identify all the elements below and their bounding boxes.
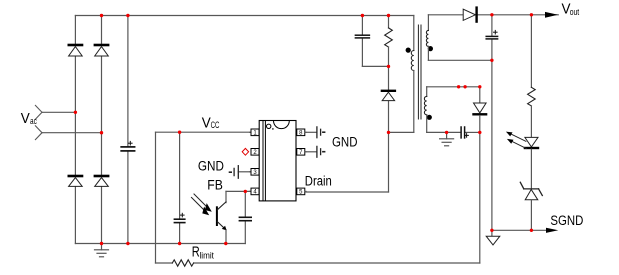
- diode D4 bridge bottom-right: [95, 176, 109, 186]
- capacitor Vcc bypass electrolytic: [174, 132, 184, 243]
- wire Vac top: [42, 111, 75, 113]
- wire SGND rail: [492, 229, 546, 231]
- IC pin 3: [250, 169, 259, 176]
- capacitor bypass pin7: [306, 146, 325, 157]
- diode D1 bridge top-left: [69, 45, 83, 56]
- svg-text:SGND: SGND: [550, 213, 583, 228]
- IC pin 2: [251, 149, 259, 156]
- capacitor snubber: [355, 16, 388, 67]
- resistor feedback divider: [528, 15, 536, 138]
- terminal Vac bottom: [35, 126, 42, 140]
- IC pin 7: [297, 149, 306, 156]
- capacitor bypass pin8: [306, 127, 325, 138]
- svg-text:GND: GND: [198, 158, 224, 173]
- IC pin 8: [297, 129, 306, 136]
- wire aux bottom: [427, 131, 480, 133]
- wire Vcc net: [156, 132, 480, 263]
- capacitor aux Vcc storage: [461, 127, 468, 138]
- capacitor FB: [239, 191, 251, 243]
- wire secondary ground vertical: [491, 60, 493, 230]
- svg-text:V: V: [21, 111, 30, 127]
- label Rlimit: [192, 244, 215, 261]
- capacitor output electrolytic: [486, 15, 497, 61]
- svg-text:ac: ac: [30, 116, 37, 127]
- resistor snubber: [385, 16, 393, 67]
- wire bottom rail: [75, 243, 245, 245]
- transformer T1 primary: [389, 16, 414, 133]
- label Vac: [21, 111, 37, 127]
- diode aux rectifier: [474, 87, 487, 133]
- svg-text:R: R: [192, 244, 200, 260]
- wire aux top: [427, 86, 480, 88]
- diode D3 bridge bottom-left: [69, 176, 83, 186]
- svg-text:CC: CC: [211, 120, 220, 130]
- diode zener reference: [520, 182, 542, 230]
- LED optocoupler: [506, 132, 538, 189]
- IC pin 5: [297, 188, 306, 195]
- IC pin 4: [250, 188, 259, 195]
- wire Vac bottom: [42, 132, 102, 134]
- label Vcc: [202, 115, 220, 131]
- diode D2 bridge top-right: [95, 45, 109, 56]
- arrow Vout: [545, 12, 558, 18]
- arrow SGND: [546, 228, 558, 233]
- terminal Vac top: [35, 105, 42, 119]
- svg-text:out: out: [570, 7, 580, 18]
- diode output rectifier: [463, 8, 476, 22]
- label Vout: [562, 2, 580, 18]
- diode clamp: [382, 91, 395, 101]
- svg-text:limit: limit: [200, 250, 215, 261]
- ground primary: [95, 244, 109, 257]
- svg-text:GND: GND: [332, 134, 358, 149]
- wire drain net: [306, 66, 389, 192]
- capacitor bypass pin3: [230, 166, 250, 179]
- transformer T1 auxiliary: [424, 87, 432, 133]
- transformer T1 secondary: [426, 15, 492, 61]
- marker unconnected pin2: [242, 148, 248, 155]
- wire Vout rail: [428, 14, 558, 16]
- IC pin 1: [250, 129, 259, 136]
- wire top rail: [75, 15, 413, 17]
- ground aux: [440, 132, 454, 145]
- svg-text:FB: FB: [207, 178, 223, 193]
- wire bridge left leg: [74, 16, 76, 244]
- optocoupler phototransistor: [191, 191, 226, 243]
- wire FB net: [226, 190, 250, 192]
- wire bridge right leg: [101, 16, 103, 244]
- transformer T1 core: [418, 25, 421, 119]
- capacitor bulk filter: [121, 16, 134, 244]
- svg-text:Drain: Drain: [305, 173, 332, 188]
- op IC U1 body: [259, 121, 296, 201]
- resistor Rlimit: [172, 260, 193, 266]
- ground flag SGND: [486, 230, 500, 245]
